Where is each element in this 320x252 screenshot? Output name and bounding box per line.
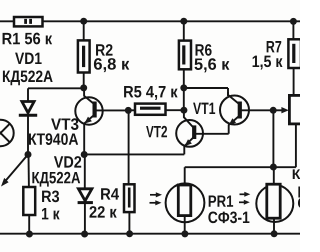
wire top supply rail — [0, 20, 300, 22]
wire VT3 base to R5 — [96, 109, 129, 111]
wire R3 top — [28, 155, 30, 188]
wire arrow into box K — [273, 109, 282, 111]
node VT3 base — [125, 107, 132, 114]
label VD2 — [54, 156, 81, 168]
wire R4 drop — [128, 110, 130, 184]
wire VT1 collector link — [184, 88, 228, 96]
label R7 — [267, 41, 282, 52]
node PR2 top — [270, 164, 277, 171]
label VD1 type — [3, 70, 53, 85]
label PR2 type cut — [298, 197, 308, 208]
label PR2 cut — [298, 186, 307, 197]
wire R2 top — [83, 21, 85, 40]
wire VD1 cathode to node — [27, 115, 29, 154]
label R1 value — [3, 33, 53, 45]
wire VT2 base — [196, 133, 229, 135]
node top R2 — [80, 18, 87, 25]
label VD2 type — [32, 172, 80, 187]
wire VT1 base — [242, 109, 274, 111]
label R4 — [101, 188, 119, 199]
light arrows PR1 — [150, 192, 163, 205]
resistor R1 — [14, 17, 43, 26]
photoresistor PR2 — [256, 184, 293, 234]
node VD2 ground — [81, 231, 88, 238]
label VD1 — [15, 53, 42, 64]
wire R7 top — [292, 21, 294, 39]
wire bottom ground rail — [0, 233, 300, 235]
label R2 value — [94, 58, 129, 72]
resistor R6 — [179, 41, 191, 70]
wire R5 left — [128, 109, 135, 111]
wire VT1 base drop — [272, 110, 274, 167]
wire photoresistor top rail — [185, 166, 296, 168]
label R2 — [96, 44, 113, 56]
wire VD1 anode — [27, 88, 29, 101]
resistor R5 — [135, 104, 166, 115]
label R7 value — [253, 56, 283, 70]
box at right edge — [289, 95, 302, 124]
node VT3 emitter — [81, 151, 88, 158]
wire R6 top — [183, 21, 185, 40]
node PR1 ground — [181, 230, 188, 237]
node PR2 ground — [271, 230, 278, 237]
label VT2 — [146, 126, 167, 138]
node top R7 — [290, 18, 297, 25]
node R5 right — [180, 107, 187, 114]
node R4 ground — [126, 230, 133, 237]
transistor VT1 — [220, 92, 249, 134]
wire R7 bottom to box — [293, 68, 295, 95]
label R3 — [42, 190, 59, 202]
label VT3 type — [29, 133, 78, 145]
label R4 value — [90, 206, 117, 218]
wire PR1 top — [184, 167, 186, 185]
label VT1 — [193, 103, 215, 114]
photoresistor PR1 — [166, 183, 205, 233]
wire VD1 top horizontal — [28, 87, 84, 89]
label R6 — [196, 44, 212, 56]
node VT1 base — [270, 107, 277, 114]
wire R6 bottom to VT2 collector node — [183, 69, 185, 110]
wire R4 bottom — [128, 212, 130, 234]
light arrows PR2 — [239, 192, 250, 205]
label PR1 type — [208, 211, 249, 223]
wire VT2 emitter to VT3 emitter — [84, 153, 184, 155]
wire PR2 drop — [273, 167, 275, 184]
node R6 VT1 collector — [180, 84, 187, 91]
label R5 value — [124, 86, 178, 100]
resistor R3 — [23, 187, 35, 215]
diode VD1 — [19, 102, 37, 116]
node top R6 — [180, 18, 187, 25]
transistor VT2 — [176, 110, 203, 154]
node VT3 collector — [80, 84, 87, 91]
lamp (left edge) — [0, 120, 14, 146]
label R3 value — [42, 208, 60, 219]
wire R5 right — [166, 109, 184, 111]
label PR1 — [209, 195, 233, 206]
transistor VT3 — [75, 90, 102, 152]
label R6 value — [195, 58, 230, 72]
resistor R7 — [288, 39, 301, 68]
label VT3 — [51, 118, 78, 130]
wire box bottom down — [295, 124, 297, 167]
wire R2 bottom — [83, 73, 85, 88]
node VD1 R3 — [25, 151, 32, 158]
resistor R2 — [78, 40, 90, 72]
wire arrow to lamp circuit — [5, 155, 29, 183]
wire R3 bottom — [28, 215, 30, 234]
diode VD2 — [78, 155, 93, 235]
label K output — [293, 169, 301, 179]
node R3 ground — [26, 231, 33, 238]
resistor R4 — [124, 184, 135, 212]
